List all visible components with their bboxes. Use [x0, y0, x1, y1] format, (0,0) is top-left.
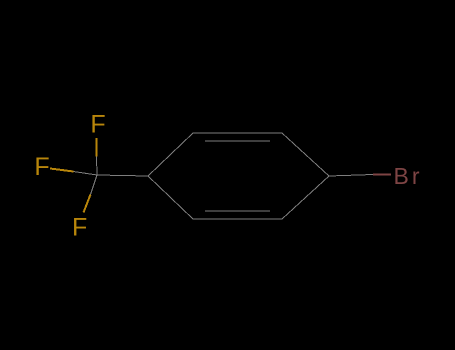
bond C1-F(bottom) fluorine-colored half [84, 195, 91, 213]
aromatic double bond inner line (bottom edge V5-V6) [205, 210, 270, 212]
aromatic double bond inner line (top edge V2-V3) [205, 140, 270, 142]
benzene ring outline V1..V6 [148, 133, 329, 219]
bond V4-Br bromine-colored half [373, 174, 391, 176]
bond C1-F(top) fluorine-colored half [96, 138, 98, 157]
bond V4-Br carbon-colored half [329, 175, 373, 177]
svg-text:F: F [34, 153, 49, 181]
svg-text:F: F [72, 214, 87, 242]
bond C1-F(bottom) carbon-colored half [91, 175, 98, 195]
svg-text:F: F [90, 111, 105, 139]
bond C1-F(left) carbon-colored half [74, 172, 98, 176]
bond C1-F(top) carbon-colored half [96, 157, 99, 176]
svg-text:Br: Br [394, 163, 420, 189]
bond C1 to ring vertex V1 [97, 175, 148, 176]
bond C1-F(left) fluorine-colored half [50, 169, 74, 172]
